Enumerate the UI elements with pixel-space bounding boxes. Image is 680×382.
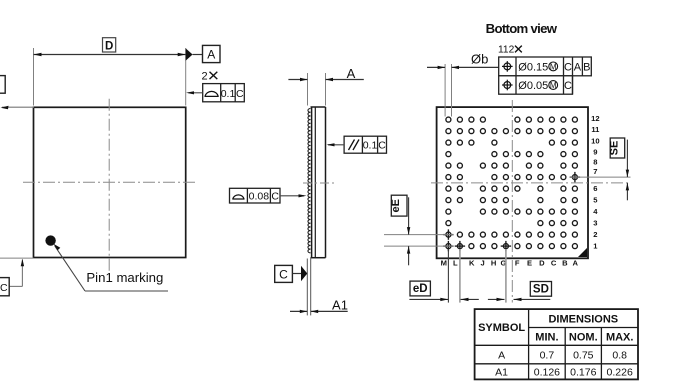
svg-text:Øb: Øb: [471, 52, 488, 67]
svg-text:A1: A1: [495, 367, 508, 379]
svg-text:F: F: [515, 259, 520, 268]
svg-text:C: C: [564, 80, 572, 92]
svg-text:C: C: [551, 259, 557, 268]
svg-text:Pin1 marking: Pin1 marking: [86, 270, 163, 285]
svg-text:112: 112: [498, 45, 515, 56]
svg-text:C: C: [0, 282, 8, 294]
svg-text:A1: A1: [332, 298, 348, 313]
svg-text:B: B: [562, 259, 568, 268]
svg-text:0.1: 0.1: [221, 88, 236, 100]
svg-text:C: C: [378, 140, 386, 152]
svg-text:A: A: [347, 66, 356, 81]
svg-text:0.176: 0.176: [570, 367, 596, 379]
svg-text:MAX.: MAX.: [606, 332, 634, 344]
svg-text:0.126: 0.126: [534, 367, 560, 379]
svg-text:0.1: 0.1: [363, 140, 378, 152]
svg-text:2: 2: [202, 70, 208, 82]
svg-text:D: D: [105, 40, 113, 52]
svg-text:11: 11: [591, 125, 600, 134]
svg-text:eE: eE: [390, 199, 402, 212]
svg-text:A: A: [574, 61, 582, 73]
svg-text:eD: eD: [413, 283, 428, 295]
svg-text:L: L: [453, 259, 458, 268]
svg-text:0.7: 0.7: [540, 350, 555, 362]
svg-text:A: A: [207, 47, 215, 61]
svg-text:K: K: [469, 259, 475, 268]
svg-text:J: J: [480, 259, 484, 268]
svg-text:12: 12: [591, 114, 599, 123]
svg-text:2: 2: [593, 230, 597, 239]
svg-text:A: A: [498, 349, 505, 361]
svg-text:NOM.: NOM.: [569, 332, 598, 344]
svg-text:SE: SE: [609, 141, 621, 156]
svg-text:M: M: [550, 81, 557, 90]
svg-text:B: B: [583, 61, 590, 73]
svg-text:8: 8: [593, 157, 597, 166]
svg-text:DIMENSIONS: DIMENSIONS: [548, 314, 618, 326]
svg-text:MIN.: MIN.: [535, 332, 558, 344]
svg-text:7: 7: [593, 167, 597, 176]
svg-text:E: E: [527, 259, 532, 268]
svg-text:0.226: 0.226: [607, 367, 633, 379]
svg-text:H: H: [491, 259, 496, 268]
svg-text:0.08: 0.08: [249, 190, 270, 202]
svg-text:M: M: [441, 259, 447, 268]
svg-text:9: 9: [593, 148, 597, 157]
svg-text:C: C: [236, 88, 244, 100]
svg-text:10: 10: [591, 136, 599, 145]
svg-text:A: A: [573, 259, 579, 268]
svg-text:Ø0.05: Ø0.05: [518, 80, 548, 92]
svg-text:C: C: [564, 61, 572, 73]
svg-text:SD: SD: [533, 284, 549, 296]
svg-text:C: C: [279, 267, 288, 281]
svg-text:D: D: [539, 259, 545, 268]
svg-text:M: M: [550, 62, 557, 71]
svg-text:6: 6: [593, 184, 597, 193]
svg-text:SYMBOL: SYMBOL: [478, 322, 525, 334]
svg-text:0.75: 0.75: [573, 350, 594, 362]
svg-text:0.8: 0.8: [612, 350, 627, 362]
svg-text:3: 3: [593, 219, 597, 228]
svg-text:Ø0.15: Ø0.15: [518, 61, 548, 73]
svg-text:C: C: [271, 190, 279, 202]
svg-text:Bottom view: Bottom view: [486, 21, 558, 36]
